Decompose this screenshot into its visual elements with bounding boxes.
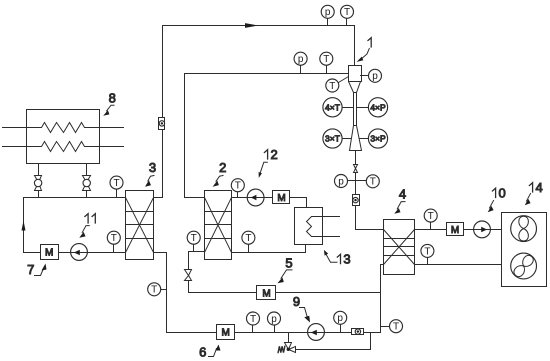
- label 7: [27, 262, 46, 277]
- svg-text:T: T: [250, 314, 256, 325]
- pump 11: [71, 244, 88, 261]
- wire riser to HX4 bottom: [381, 265, 384, 333]
- ejector converging cone: [349, 82, 361, 93]
- svg-text:M: M: [262, 289, 270, 300]
- wire to HX4 top inlet: [356, 206, 384, 230]
- svg-text:6: 6: [199, 345, 206, 360]
- valve V1 below HX8 left: [34, 164, 41, 198]
- svg-text:M: M: [45, 248, 53, 259]
- sensor p near pump 9: [334, 311, 347, 332]
- sensor p (second line): [294, 52, 307, 73]
- valve V3: [185, 270, 192, 293]
- svg-text:p: p: [325, 7, 331, 18]
- svg-text:T: T: [424, 246, 430, 257]
- wire ejector outlet down: [355, 151, 357, 165]
- flow arrow up on riser: [22, 221, 26, 231]
- ejector throat: [354, 93, 357, 126]
- sensor p right of ejector: [361, 69, 382, 82]
- sensor T on bottom pipe: [107, 231, 120, 252]
- svg-text:T: T: [191, 233, 197, 244]
- svg-text:7: 7: [27, 262, 34, 277]
- heat exchanger 8 upper tube with zigzag: [3, 123, 124, 133]
- svg-text:3×T: 3×T: [325, 134, 340, 144]
- label 2: [213, 160, 227, 187]
- fan unit 14 box: [502, 213, 547, 287]
- label 11: [79, 214, 95, 238]
- sensor 3xP: [360, 129, 388, 148]
- wire left loop bottom pipe: [24, 252, 126, 254]
- fan F upper: [511, 216, 537, 242]
- sensor p (top line): [321, 5, 334, 25]
- svg-text:T: T: [151, 285, 157, 296]
- svg-text:4×P: 4×P: [370, 102, 386, 112]
- fan F lower: [498, 240, 549, 291]
- motor M7 box: [41, 245, 59, 260]
- label 12: [259, 147, 278, 178]
- heat exchanger 4: [384, 220, 415, 275]
- svg-text:4×T: 4×T: [325, 102, 340, 112]
- sensor T (top line): [341, 5, 354, 25]
- sensor p below valve: [335, 175, 356, 188]
- sensor 4xT: [323, 98, 354, 117]
- svg-text:4: 4: [536, 180, 543, 195]
- pump 10: [474, 221, 491, 238]
- svg-text:3: 3: [149, 160, 156, 175]
- label 6: [199, 345, 220, 360]
- svg-text:5: 5: [285, 256, 292, 271]
- svg-text:9: 9: [293, 294, 300, 309]
- svg-text:T: T: [428, 211, 434, 222]
- svg-text:2: 2: [271, 147, 278, 162]
- wire left loop riser: [23, 198, 25, 253]
- sensor 3xT: [323, 129, 351, 148]
- svg-text:3×P: 3×P: [370, 134, 386, 144]
- wire M5 branch line: [189, 292, 381, 294]
- sensor T right of riser: [381, 320, 403, 333]
- sensor T at HX4 top right: [424, 209, 437, 229]
- label 14: [525, 180, 543, 205]
- heat exchanger 8 lower tube with zigzag: [3, 142, 124, 152]
- wire bottom header: [167, 332, 381, 334]
- flowmeter F3 on bottom header: [352, 329, 364, 335]
- wire tank 13 bottom to HX2 bottom right: [232, 245, 306, 253]
- pump 12: [247, 189, 264, 206]
- heat exchanger 8 shell box: [27, 110, 100, 164]
- svg-text:p: p: [372, 71, 378, 82]
- svg-text:T: T: [323, 54, 329, 65]
- wire HX4 bottom outlet to fan unit: [415, 264, 502, 266]
- sensor 4xP: [357, 98, 388, 117]
- svg-text:2: 2: [219, 160, 226, 175]
- sensor T at HX4 bottom right: [421, 244, 434, 264]
- sensor T below valve: [356, 175, 380, 188]
- label 4: [394, 187, 406, 214]
- svg-text:p: p: [298, 54, 304, 65]
- wire HX2 bottom-left drop with valve: [189, 252, 205, 270]
- wire HX2 top outlet to M12 and tank 13: [232, 198, 307, 208]
- svg-text:p: p: [338, 176, 344, 187]
- svg-text:T: T: [344, 7, 350, 18]
- wire HX4 top outlet to fan unit: [415, 229, 502, 231]
- svg-text:T: T: [393, 322, 399, 333]
- relief valve branch: [278, 333, 370, 353]
- svg-text:M: M: [451, 225, 459, 236]
- svg-text:T: T: [245, 233, 251, 244]
- wire left vertical from top line to HX3 top right: [154, 26, 163, 198]
- label 8: [103, 91, 116, 116]
- heat exchanger 2: [205, 191, 232, 260]
- sensor T on tank bottom line: [242, 231, 255, 252]
- label 5: [277, 256, 292, 284]
- wire top main line with corner down to ejector: [163, 26, 355, 66]
- svg-text:T: T: [235, 181, 241, 192]
- svg-text:M: M: [277, 193, 285, 204]
- flowmeter F2: [353, 195, 360, 206]
- flowmeter F1 on vertical: [159, 118, 165, 130]
- label 13: [324, 250, 351, 267]
- svg-text:T: T: [113, 178, 119, 189]
- label 3: [145, 160, 156, 187]
- svg-text:0: 0: [499, 186, 506, 201]
- motor M10 box: [447, 223, 464, 237]
- sensor T at HX2 bottom-left: [187, 231, 200, 251]
- tank 13 with coil: [295, 208, 340, 245]
- valve V4 small: [354, 165, 358, 195]
- label 1: [357, 38, 372, 62]
- sensor T (second line): [320, 52, 333, 73]
- motor M12 box: [273, 191, 290, 205]
- svg-text:p: p: [337, 313, 343, 324]
- sensor T on downcomer: [148, 283, 167, 296]
- motor M5 box: [257, 286, 276, 300]
- wire left loop top pipe: [24, 197, 126, 199]
- ejector 1 body box: [349, 66, 362, 82]
- svg-text:T: T: [111, 233, 117, 244]
- wire HX3 bottom outlet down to bottom header: [154, 253, 167, 333]
- sensor p on bottom header: [268, 312, 281, 333]
- sensor T left of ejector: [326, 77, 349, 93]
- sensor T on bottom header: [247, 312, 260, 333]
- svg-text:3: 3: [343, 252, 350, 267]
- svg-text:M: M: [222, 328, 230, 339]
- sensor T above HX3 inlet: [110, 176, 123, 197]
- svg-text:8: 8: [109, 91, 116, 106]
- svg-text:4: 4: [399, 187, 406, 202]
- svg-text:p: p: [271, 314, 277, 325]
- sensor letter texts: [111, 7, 434, 332]
- wire second line to ejector suction with corner down to HX2: [185, 74, 349, 198]
- valve V2 below HX8 right: [83, 164, 91, 198]
- pump 9: [308, 324, 325, 341]
- heat exchanger 3: [126, 191, 154, 260]
- label 10: [488, 186, 506, 213]
- svg-text:T: T: [329, 81, 335, 92]
- ejector diffuser: [350, 126, 362, 151]
- svg-text:T: T: [370, 177, 376, 188]
- label 9: [293, 294, 310, 323]
- flow arrow on top line: [245, 23, 259, 28]
- motor M6 box: [217, 325, 235, 340]
- sensor T at HX2 top right: [231, 179, 244, 198]
